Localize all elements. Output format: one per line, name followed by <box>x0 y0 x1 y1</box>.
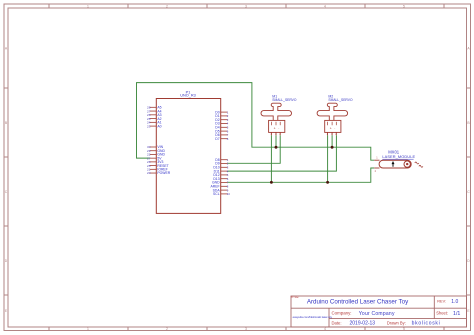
svg-text:20: 20 <box>147 171 151 175</box>
svg-text:Date:: Date: <box>332 320 342 325</box>
svg-text:SMALL_SERVO: SMALL_SERVO <box>328 98 353 102</box>
svg-text:D7: D7 <box>215 137 219 141</box>
IC P1 UNO_R3 Arduino board symbol with pins <box>147 90 230 213</box>
junction M1 GND on GND net <box>270 181 273 184</box>
svg-text:2019-02-13: 2019-02-13 <box>350 321 376 327</box>
wire M2 servo GND pin drop <box>327 135 329 182</box>
svg-text:-: - <box>334 126 335 130</box>
svg-text:+: + <box>274 127 276 131</box>
svg-text:LASER_MODULE: LASER_MODULE <box>382 154 415 159</box>
svg-text:10: 10 <box>227 192 231 196</box>
wire D9 net: Arduino D9 to M1 servo signal pin <box>227 135 280 163</box>
svg-text:Your Company: Your Company <box>359 311 395 317</box>
svg-text:Sheet:: Sheet: <box>436 311 448 316</box>
svg-text:SMALL_SERVO: SMALL_SERVO <box>272 98 297 102</box>
svg-text:3: 3 <box>245 4 247 8</box>
svg-text:3: 3 <box>245 327 247 331</box>
svg-text:SCL: SCL <box>213 192 220 196</box>
title block <box>291 296 467 327</box>
svg-text:1.0: 1.0 <box>451 299 458 305</box>
svg-text:+: + <box>330 127 332 131</box>
svg-text:1: 1 <box>87 4 89 8</box>
svg-text:2: 2 <box>166 4 168 8</box>
svg-text:2: 2 <box>166 327 168 331</box>
svg-text:REV:: REV: <box>437 300 446 304</box>
svg-text:Drawn By:: Drawn By: <box>387 320 406 325</box>
svg-text:easyeda.com/bkolicoski laser-t: easyeda.com/bkolicoski laser-toy <box>293 315 333 319</box>
wire M2 servo V+ pin drop <box>331 135 333 147</box>
svg-text:Arduino Controlled Laser Chase: Arduino Controlled Laser Chaser Toy <box>307 298 409 305</box>
svg-text:Company:: Company: <box>332 311 352 316</box>
junction M1 V+ on 5V net <box>275 146 278 149</box>
wire M1 servo GND pin drop <box>270 135 272 182</box>
wire D11 net: Arduino D11 to M2 servo signal pin <box>227 135 336 171</box>
motor M1 SMALL_SERVO <box>261 94 297 135</box>
svg-text:5: 5 <box>403 4 405 8</box>
junction M2 GND on GND net <box>326 181 329 184</box>
svg-text:1/1: 1/1 <box>453 311 460 317</box>
svg-text:-: - <box>278 126 279 130</box>
wire GND net: Arduino GND to servo grounds and laser - <box>227 168 374 182</box>
laser module MX01 LASER_MODULE <box>374 150 423 173</box>
motor M2 SMALL_SERVO <box>317 94 353 135</box>
svg-text:POWER: POWER <box>157 171 170 175</box>
svg-text:bkolicoski: bkolicoski <box>412 321 441 327</box>
svg-text:TITLE:: TITLE: <box>291 295 300 299</box>
junction M2 V+ on 5V net <box>331 146 334 149</box>
wire M1 servo V+ pin drop <box>275 135 277 147</box>
svg-text:4: 4 <box>324 4 326 8</box>
svg-text:5: 5 <box>403 327 405 331</box>
svg-text:UNO_R3: UNO_R3 <box>180 94 195 98</box>
svg-text:4: 4 <box>324 327 326 331</box>
svg-text:1: 1 <box>87 327 89 331</box>
svg-text:23: 23 <box>147 124 151 128</box>
svg-text:A0: A0 <box>157 124 161 128</box>
wire 5V net: Arduino 5V pin up and over to servo V+ pins and laser + <box>137 83 375 161</box>
